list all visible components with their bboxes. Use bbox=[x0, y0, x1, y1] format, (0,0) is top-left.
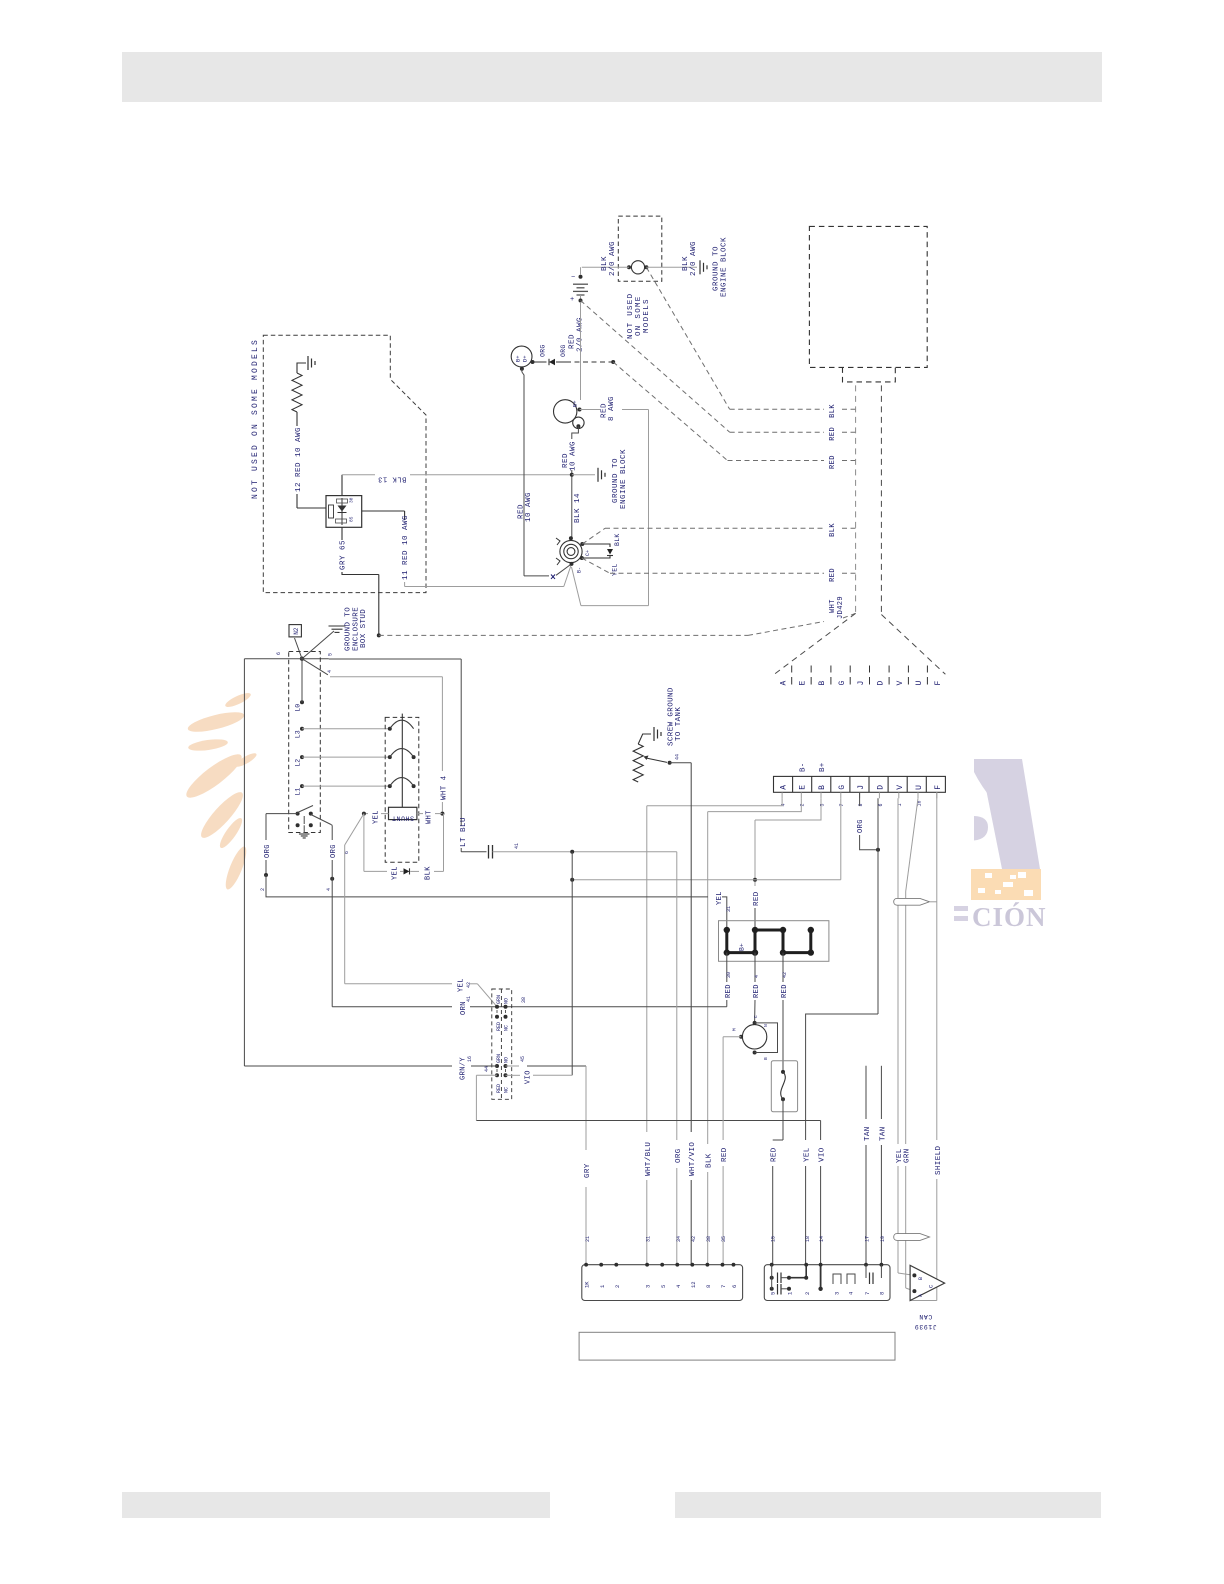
svg-text:30: 30 bbox=[349, 497, 355, 503]
svg-text:L1: L1 bbox=[295, 788, 302, 796]
svg-text:RED: RED bbox=[771, 1147, 779, 1162]
svg-text:NC: NC bbox=[504, 1087, 510, 1093]
svg-text:L2: L2 bbox=[295, 759, 302, 767]
svg-text:YEL: YEL bbox=[804, 1147, 812, 1162]
svg-text:GRN: GRN bbox=[904, 1148, 912, 1163]
svg-text:J1939: J1939 bbox=[914, 1323, 937, 1330]
svg-text:BLK: BLK bbox=[424, 866, 432, 880]
svg-text:ORG: ORG bbox=[540, 344, 547, 357]
svg-text:8 AWG: 8 AWG bbox=[608, 396, 616, 421]
svg-text:CIÓN: CIÓN bbox=[972, 902, 1047, 932]
svg-text:RED: RED bbox=[725, 984, 733, 998]
svg-text:C+: C+ bbox=[585, 550, 591, 556]
svg-text:BLK 14: BLK 14 bbox=[574, 493, 582, 523]
svg-text:35: 35 bbox=[721, 1236, 727, 1242]
svg-text:GROUND TO: GROUND TO bbox=[345, 607, 353, 651]
svg-text:G: G bbox=[838, 785, 847, 790]
svg-text:NO: NO bbox=[504, 998, 510, 1004]
svg-text:A: A bbox=[779, 785, 788, 790]
svg-text:YEL: YEL bbox=[716, 891, 724, 905]
svg-text:2: 2 bbox=[614, 1285, 621, 1288]
svg-text:31: 31 bbox=[726, 906, 732, 912]
svg-text:F: F bbox=[934, 681, 943, 686]
svg-text:2: 2 bbox=[804, 1292, 811, 1295]
svg-text:RED: RED bbox=[569, 334, 577, 349]
svg-text:ORG: ORG bbox=[675, 1148, 683, 1163]
svg-text:2/0 AWG: 2/0 AWG bbox=[609, 241, 617, 276]
svg-text:NOT USED: NOT USED bbox=[627, 293, 635, 339]
svg-text:LT BLU: LT BLU bbox=[460, 817, 468, 847]
svg-text:5: 5 bbox=[819, 803, 825, 806]
svg-text:42: 42 bbox=[782, 972, 788, 978]
svg-text:NOT USED ON SOME MODELS: NOT USED ON SOME MODELS bbox=[251, 338, 260, 499]
svg-text:M: M bbox=[732, 1028, 738, 1031]
svg-text:RED: RED bbox=[829, 568, 837, 582]
svg-text:GROUND TO: GROUND TO bbox=[713, 246, 721, 291]
svg-text:38: 38 bbox=[521, 997, 527, 1003]
svg-text:TAN: TAN bbox=[879, 1126, 887, 1141]
svg-text:15: 15 bbox=[770, 1236, 776, 1242]
svg-text:BLK: BLK bbox=[601, 256, 609, 271]
svg-text:L0: L0 bbox=[295, 704, 302, 712]
svg-text:11 RED 10 AWG: 11 RED 10 AWG bbox=[402, 515, 410, 580]
svg-text:1K: 1K bbox=[584, 1281, 591, 1288]
svg-text:GRN: GRN bbox=[496, 995, 502, 1004]
svg-text:RED: RED bbox=[829, 455, 837, 469]
svg-text:WHT: WHT bbox=[829, 599, 837, 613]
svg-text:5: 5 bbox=[660, 1285, 667, 1288]
svg-text:B-: B- bbox=[577, 567, 583, 573]
svg-text:NO: NO bbox=[504, 1057, 510, 1063]
svg-text:YEL: YEL bbox=[391, 866, 399, 880]
svg-text:BLK 13: BLK 13 bbox=[378, 474, 407, 482]
svg-text:8: 8 bbox=[879, 1292, 886, 1295]
svg-text:V: V bbox=[896, 785, 905, 790]
svg-text:B-: B- bbox=[800, 762, 808, 772]
svg-text:38: 38 bbox=[706, 1236, 712, 1242]
svg-text:7: 7 bbox=[839, 803, 845, 806]
svg-text:ORG: ORG bbox=[330, 844, 338, 858]
svg-text:16: 16 bbox=[467, 1056, 473, 1062]
svg-text:RED: RED bbox=[496, 1084, 502, 1093]
svg-text:A: A bbox=[918, 1294, 924, 1297]
svg-text:N2: N2 bbox=[293, 627, 300, 635]
svg-text:BLK: BLK bbox=[829, 404, 837, 418]
svg-text:E: E bbox=[799, 681, 808, 686]
svg-text:6: 6 bbox=[878, 803, 884, 806]
svg-text:85: 85 bbox=[349, 516, 355, 522]
svg-text:34: 34 bbox=[676, 1236, 682, 1242]
svg-text:10 AWG: 10 AWG bbox=[569, 441, 577, 471]
svg-text:2/0 AWG: 2/0 AWG bbox=[690, 241, 698, 276]
svg-text:B+: B+ bbox=[819, 762, 827, 772]
svg-text:BLK: BLK bbox=[829, 523, 837, 537]
svg-text:WHT 4: WHT 4 bbox=[441, 775, 449, 800]
svg-text:A: A bbox=[779, 681, 788, 686]
svg-text:YEL: YEL bbox=[457, 978, 465, 992]
svg-text:B: B bbox=[918, 1277, 924, 1280]
svg-text:V: V bbox=[896, 681, 905, 686]
svg-text:D: D bbox=[877, 681, 886, 686]
svg-text:GRY 65: GRY 65 bbox=[340, 540, 348, 570]
svg-text:4: 4 bbox=[326, 888, 332, 891]
svg-text:YEL: YEL bbox=[612, 563, 619, 576]
svg-text:U: U bbox=[915, 681, 924, 686]
svg-text:2: 2 bbox=[800, 803, 806, 806]
svg-text:RED: RED bbox=[829, 427, 837, 441]
svg-text:7: 7 bbox=[720, 1285, 727, 1288]
svg-text:CAN: CAN bbox=[919, 1313, 933, 1320]
svg-text:44: 44 bbox=[484, 1066, 490, 1072]
svg-text:B: B bbox=[763, 1057, 769, 1060]
svg-text:6: 6 bbox=[731, 1285, 738, 1288]
svg-text:18: 18 bbox=[805, 1236, 811, 1242]
svg-text:WHT/VIO: WHT/VIO bbox=[689, 1142, 697, 1176]
svg-text:7: 7 bbox=[864, 1292, 871, 1295]
svg-text:D: D bbox=[877, 785, 886, 790]
svg-text:B+: B+ bbox=[739, 943, 746, 951]
svg-text:B: B bbox=[818, 785, 827, 790]
svg-text:RED: RED bbox=[781, 984, 789, 998]
svg-text:ENGINE BLOCK: ENGINE BLOCK bbox=[721, 237, 729, 297]
svg-text:E: E bbox=[799, 785, 808, 790]
svg-text:ON SOME: ON SOME bbox=[635, 295, 643, 336]
svg-text:GRN: GRN bbox=[496, 1054, 502, 1063]
svg-text:4: 4 bbox=[327, 670, 333, 673]
svg-text:D+: D+ bbox=[522, 355, 529, 362]
svg-text:WHT: WHT bbox=[425, 810, 433, 824]
svg-text:GRY: GRY bbox=[584, 1163, 592, 1178]
svg-text:6: 6 bbox=[276, 652, 282, 655]
svg-text:12 RED 10 AWG: 12 RED 10 AWG bbox=[295, 427, 303, 492]
svg-text:44: 44 bbox=[675, 754, 681, 760]
svg-text:MODELS: MODELS bbox=[643, 298, 651, 333]
svg-text:42: 42 bbox=[466, 982, 472, 988]
svg-text:−: − bbox=[571, 274, 575, 282]
svg-text:BLK: BLK bbox=[682, 256, 690, 271]
svg-text:30: 30 bbox=[726, 972, 732, 978]
svg-text:B: B bbox=[818, 681, 827, 686]
svg-text:G: G bbox=[838, 681, 847, 686]
svg-text:RED: RED bbox=[753, 984, 761, 998]
svg-text:ENGINE BLOCK: ENGINE BLOCK bbox=[620, 449, 628, 509]
svg-text:BLK: BLK bbox=[706, 1153, 714, 1168]
svg-text:10 AWG: 10 AWG bbox=[525, 492, 533, 522]
svg-text:2: 2 bbox=[260, 888, 266, 891]
svg-text:TO TANK: TO TANK bbox=[675, 707, 683, 741]
svg-text:J: J bbox=[857, 785, 866, 790]
svg-text:SHUNT: SHUNT bbox=[391, 815, 414, 822]
svg-text:ORG: ORG bbox=[857, 819, 865, 833]
svg-text:17: 17 bbox=[865, 1236, 871, 1242]
svg-text:JD429: JD429 bbox=[837, 596, 845, 619]
svg-text:8: 8 bbox=[705, 1285, 712, 1288]
svg-text:5: 5 bbox=[328, 653, 334, 656]
svg-text:+: + bbox=[570, 296, 574, 304]
svg-text:B+: B+ bbox=[572, 400, 579, 407]
svg-text:VIO: VIO bbox=[819, 1147, 827, 1162]
svg-text:4: 4 bbox=[754, 975, 760, 978]
svg-text:C: C bbox=[753, 1015, 759, 1018]
svg-text:F: F bbox=[934, 785, 943, 790]
svg-text:RED: RED bbox=[721, 1147, 729, 1162]
svg-text:ORG: ORG bbox=[264, 844, 272, 858]
svg-text:41: 41 bbox=[466, 996, 472, 1002]
svg-text:B+: B+ bbox=[515, 355, 522, 362]
svg-text:BLK: BLK bbox=[614, 533, 621, 546]
svg-text:SHIELD: SHIELD bbox=[935, 1145, 943, 1175]
svg-text:8: 8 bbox=[858, 803, 864, 806]
svg-text:19: 19 bbox=[880, 1236, 886, 1242]
svg-text:VIO: VIO bbox=[524, 1070, 532, 1084]
svg-text:3: 3 bbox=[834, 1292, 841, 1295]
svg-text:3: 3 bbox=[645, 1285, 652, 1288]
svg-text:J: J bbox=[857, 681, 866, 686]
svg-text:41: 41 bbox=[514, 843, 520, 849]
svg-text:L3: L3 bbox=[295, 730, 302, 738]
svg-text:NC: NC bbox=[504, 1025, 510, 1031]
svg-text:TAN: TAN bbox=[864, 1126, 872, 1141]
svg-text:ORN: ORN bbox=[460, 1001, 468, 1015]
svg-text:42: 42 bbox=[691, 1236, 697, 1242]
svg-text:31: 31 bbox=[646, 1236, 652, 1242]
svg-text:ORG: ORG bbox=[560, 344, 567, 357]
svg-text:45: 45 bbox=[520, 1056, 526, 1062]
svg-text:RED: RED bbox=[496, 1022, 502, 1031]
svg-text:WHT/BLU: WHT/BLU bbox=[645, 1142, 653, 1176]
svg-text:5: 5 bbox=[769, 1292, 776, 1295]
svg-text:N: N bbox=[763, 1024, 769, 1027]
svg-text:GROUND TO: GROUND TO bbox=[612, 458, 620, 503]
svg-text:14: 14 bbox=[819, 1236, 825, 1242]
svg-text:YEL: YEL bbox=[372, 810, 380, 824]
svg-text:12: 12 bbox=[690, 1281, 697, 1288]
svg-text:U: U bbox=[915, 785, 924, 790]
svg-text:RED: RED bbox=[753, 891, 761, 906]
svg-text:BOX STUD: BOX STUD bbox=[360, 609, 368, 648]
svg-text:21: 21 bbox=[585, 1236, 591, 1242]
